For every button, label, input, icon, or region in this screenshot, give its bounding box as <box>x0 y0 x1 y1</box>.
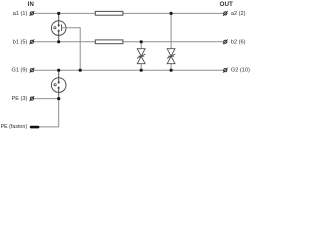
svg-text:IN: IN <box>28 2 34 8</box>
terminal G1 (9) <box>30 68 35 73</box>
junction dot PE-line / F2 <box>57 97 60 100</box>
junction dot b-line / F1 <box>57 40 60 43</box>
svg-text:b2 (6): b2 (6) <box>231 39 246 45</box>
suppressor diode D2 (a-line to G-line) <box>167 13 175 70</box>
PE faston tab <box>30 126 40 129</box>
junction dot G-line / F1 electrode <box>79 69 82 72</box>
wire PE-line <box>34 98 59 100</box>
resistor R2 (b-line) <box>95 40 123 44</box>
svg-text:a1 (1): a1 (1) <box>13 11 28 17</box>
suppressor diode D1 (b-line to G-line) <box>137 42 145 70</box>
svg-text:a2 (2): a2 (2) <box>231 11 246 17</box>
gas discharge tube F1 (3-electrode, between a and b lines) <box>51 13 66 41</box>
wire b-line right segment <box>123 41 224 43</box>
terminal PE (3) <box>30 96 35 101</box>
svg-text:G1 (9): G1 (9) <box>12 68 28 74</box>
resistor R1 (a-line) <box>95 11 123 15</box>
wire PE vertical to faston <box>58 99 60 127</box>
terminal G2 (10) <box>223 68 228 73</box>
junction dot a-line / D2 <box>170 12 173 15</box>
terminal b2 (6) <box>223 39 228 44</box>
junction dot G-line / F2 <box>57 69 60 72</box>
wire faston horizontal <box>39 126 59 128</box>
svg-text:OUT: OUT <box>220 1 233 8</box>
wire b-line left segment <box>34 41 96 43</box>
svg-text:b1 (5): b1 (5) <box>13 39 28 45</box>
junction dot b-line / D1 <box>140 40 143 43</box>
terminal a2 (2) <box>223 11 228 16</box>
junction dot G-line / D1 <box>140 69 143 72</box>
svg-text:G2 (10): G2 (10) <box>231 68 250 74</box>
gas discharge tube F2 (between G-line and PE) <box>51 70 66 98</box>
svg-text:PE (3): PE (3) <box>12 96 28 102</box>
wire a-line right segment <box>123 12 224 14</box>
terminal a1 (1) <box>30 11 35 16</box>
svg-text:PE (faston): PE (faston) <box>1 124 28 130</box>
junction dot G-line / D2 <box>170 69 173 72</box>
wire a-line left segment <box>34 12 96 14</box>
junction dot a-line / F1 <box>57 12 60 15</box>
wire G-line <box>34 69 224 71</box>
terminal b1 (5) <box>30 39 35 44</box>
wire F1 third electrode to G-line <box>62 28 81 70</box>
